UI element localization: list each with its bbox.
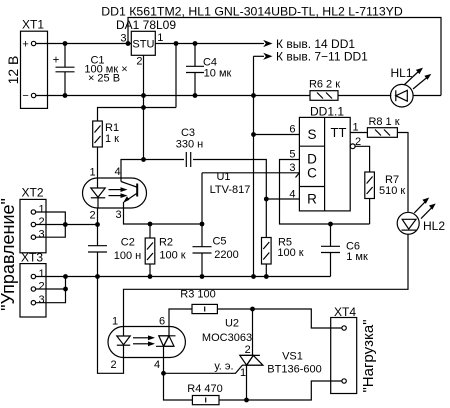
svg-text:C: C (307, 166, 317, 181)
svg-text:3: 3 (120, 33, 126, 45)
capacitor C2 (88, 237, 141, 277)
node C3 wire (141, 157, 146, 162)
resistor R5 (262, 199, 304, 277)
node R1 wire (141, 105, 146, 110)
svg-text:HL1: HL1 (391, 66, 413, 80)
arrow to pins 7-11 DD1 (254, 50, 369, 64)
node C1 top (63, 41, 68, 46)
svg-text:1: 1 (157, 32, 163, 44)
connector XT2 (20, 186, 98, 253)
wire gate (164, 365, 243, 373)
svg-text:6: 6 (289, 124, 295, 136)
svg-text:DA1 78L09: DA1 78L09 (116, 18, 176, 32)
dynamic input mark (296, 173, 300, 178)
optocoupler U1 LTV-817 (83, 166, 251, 222)
svg-text:1: 1 (112, 316, 118, 328)
wire HL1 to corner (413, 95, 441, 97)
svg-text:R8 1 к: R8 1 к (368, 116, 399, 128)
connector XT3 (20, 251, 66, 318)
node XT3 pin2 (63, 287, 68, 292)
resistor R6 (309, 79, 340, 101)
svg-text:R4 470: R4 470 (187, 383, 222, 395)
optocoupler U2 MOC3063 (108, 316, 252, 372)
wire R7 bottom (369, 199, 371, 225)
svg-text:1: 1 (39, 203, 45, 215)
U2 light arrows (133, 337, 149, 339)
node XT2 pin2 (63, 222, 68, 227)
svg-text:2: 2 (110, 359, 116, 371)
svg-text:4: 4 (289, 189, 295, 201)
flip-flop DD1.1 (289, 105, 369, 211)
svg-text:VS1: VS1 (282, 351, 303, 363)
node C4 top (193, 41, 198, 46)
svg-text:"Управление": "Управление" (0, 198, 18, 311)
resistor R7 (365, 172, 406, 199)
svg-text:DD1.1: DD1.1 (310, 105, 344, 119)
node R2 top (148, 222, 153, 227)
capacitor C3 (176, 127, 203, 167)
svg-text:1: 1 (353, 122, 359, 134)
svg-text:3: 3 (39, 294, 45, 306)
svg-text:10 мк: 10 мк (204, 68, 232, 80)
LED HL2 (397, 198, 445, 235)
node R5 bottom (264, 274, 269, 279)
wire U1 pin3 to R2/C5 (124, 208, 203, 224)
svg-text:LTV-817: LTV-817 (210, 184, 251, 196)
U2 phototriac (159, 335, 176, 337)
XT3 pin2/pin3 jog (36, 277, 66, 303)
wire GND drop to C3 wire (143, 96, 145, 160)
resistor R1 (93, 121, 119, 147)
triac VS1 (240, 309, 322, 400)
svg-text:12 В: 12 В (5, 56, 21, 85)
svg-text:XT4: XT4 (334, 305, 356, 319)
svg-text:1: 1 (39, 268, 45, 280)
svg-text:1: 1 (240, 367, 246, 379)
svg-text:C5: C5 (212, 236, 226, 248)
node C4 bottom (193, 93, 198, 98)
svg-text:D: D (307, 152, 317, 167)
node U1 pin2 (95, 222, 100, 227)
node VS1 bottom (244, 398, 249, 403)
node C1 bottom (63, 93, 68, 98)
svg-text:100 н: 100 н (114, 250, 141, 262)
U2 LED (123, 327, 125, 337)
wire C input (202, 172, 299, 174)
connector XT4 (331, 305, 357, 394)
svg-text:510 к: 510 к (379, 185, 405, 197)
wire R8 to HL2 (397, 133, 408, 212)
node U2 pin4 gate (161, 371, 166, 376)
U1 LED (97, 178, 99, 188)
node GND branch (251, 93, 256, 98)
arrow to pin 14 DD1 (262, 37, 356, 51)
node VS1 top (250, 307, 255, 312)
svg-text:XT2: XT2 (21, 186, 43, 200)
wire DA1 pin2 to GND (143, 55, 145, 95)
svg-text:6: 6 (159, 316, 165, 328)
LED HL1 (391, 66, 432, 107)
svg-text:U2: U2 (225, 318, 239, 330)
wire GND bus (36, 276, 331, 278)
node GND branch bottom (251, 274, 256, 279)
node R2 bottom (148, 274, 153, 279)
U1 light arrows (109, 189, 122, 191)
wire C3 to R-chain corner (193, 160, 266, 200)
svg-text:330 н: 330 н (176, 139, 203, 151)
svg-text:100 к: 100 к (159, 250, 185, 262)
wire U1 pin2 down (97, 208, 99, 246)
resistor R8 (367, 116, 399, 137)
wire HL2 cathode down (124, 234, 409, 327)
node C2 bottom (95, 274, 100, 279)
wire top feed (128, 18, 441, 96)
svg-text:R6 2 к: R6 2 к (309, 79, 340, 91)
svg-text:× 25 В: × 25 В (88, 73, 120, 85)
svg-text:STU: STU (132, 39, 154, 51)
capacitor C1 (53, 44, 128, 96)
resistor R4 (187, 383, 222, 405)
wire D input (280, 160, 370, 225)
node DA1 pin2 GND (141, 93, 146, 98)
regulator DA1 78L09 (116, 18, 176, 96)
svg-text:3: 3 (115, 209, 121, 221)
wire U1 pin4 to C3 (121, 160, 184, 179)
svg-text:2: 2 (89, 210, 95, 222)
svg-text:XT3: XT3 (21, 251, 43, 265)
node +9V drop (174, 41, 179, 46)
svg-text:1: 1 (89, 167, 95, 179)
wire +9V drop to R1 wire (175, 44, 177, 108)
node top feed (126, 41, 131, 46)
wire GND vertical branch (253, 56, 255, 276)
U1 phototransistor (120, 178, 122, 182)
wire R input (266, 198, 299, 200)
svg-text:DD1 К561ТМ2, HL1 GNL-3014UBD-T: DD1 К561ТМ2, HL1 GNL-3014UBD-TL, HL2 L-7… (101, 5, 403, 19)
wire U2 pin4 down (163, 358, 165, 374)
wire S input (254, 134, 300, 136)
svg-text:XT1: XT1 (22, 18, 44, 32)
wire R6 to HL1 (338, 95, 391, 97)
capacitor C4 (186, 44, 232, 96)
wire U2 pin2 jog to bus (98, 277, 124, 374)
svg-text:4: 4 (114, 166, 120, 178)
svg-text:у. э.: у. э. (214, 361, 233, 373)
node C5 top (200, 222, 205, 227)
svg-text:2: 2 (136, 56, 142, 68)
svg-text:100 к: 100 к (277, 247, 303, 259)
capacitor C6 (321, 224, 368, 277)
node XT3 jog (63, 274, 68, 279)
wire R3 to XT4 pin1 (217, 309, 342, 328)
svg-text:S: S (307, 127, 316, 142)
wire GND rail (36, 95, 310, 97)
svg-text:2: 2 (245, 344, 251, 356)
svg-text:3: 3 (289, 162, 295, 174)
svg-text:+: + (22, 39, 28, 51)
svg-text:−: − (22, 90, 28, 102)
wire R4 to XT4 pin2 (219, 381, 342, 400)
resistor R3 (180, 289, 217, 314)
wire C input drop (201, 173, 203, 224)
svg-text:1 мк: 1 мк (346, 251, 368, 263)
wire U2 pin6 to R3 (169, 309, 192, 327)
svg-text:2: 2 (39, 216, 45, 228)
wire U2 pin4 to R4 (164, 373, 193, 400)
wire R1 to U1 pin1 (97, 147, 99, 178)
wire +9V rail (155, 43, 261, 45)
svg-text:R3 100: R3 100 (180, 289, 215, 301)
svg-text:R2: R2 (159, 237, 173, 249)
svg-text:2: 2 (39, 280, 45, 292)
XT2 pin1/pin3 jog (36, 212, 66, 237)
node R input (264, 197, 269, 202)
node C6 top (328, 222, 333, 227)
svg-text:C2: C2 (121, 237, 135, 249)
XT2 pin2 wire (36, 224, 98, 226)
svg-text:MOC3063: MOC3063 (202, 332, 252, 344)
pin 1 output wire (350, 132, 367, 134)
resistor R2 (145, 224, 186, 277)
capacitor C5 (193, 224, 239, 277)
svg-text:4: 4 (154, 359, 160, 371)
svg-text:R: R (307, 192, 317, 207)
node C5 bottom (200, 274, 205, 279)
svg-text:BT136-600: BT136-600 (267, 364, 321, 376)
svg-text:1 к: 1 к (105, 133, 119, 145)
connector XT1 (21, 18, 48, 109)
svg-text:5: 5 (289, 149, 295, 161)
svg-text:3: 3 (39, 229, 45, 241)
node S wire (251, 132, 256, 137)
svg-text:2200: 2200 (214, 249, 238, 261)
wire +12V rail (36, 43, 132, 45)
svg-text:К выв. 7−11 DD1: К выв. 7−11 DD1 (276, 50, 368, 64)
svg-text:C3: C3 (181, 127, 195, 139)
wire R1 top (98, 108, 177, 122)
svg-text:+: + (53, 55, 60, 67)
svg-text:HL2: HL2 (423, 219, 445, 233)
pin 2 output wire (355, 146, 370, 172)
svg-text:TT: TT (331, 125, 347, 140)
svg-text:"Нагрузка": "Нагрузка" (360, 319, 377, 392)
pin 2 inversion circle (350, 144, 355, 149)
